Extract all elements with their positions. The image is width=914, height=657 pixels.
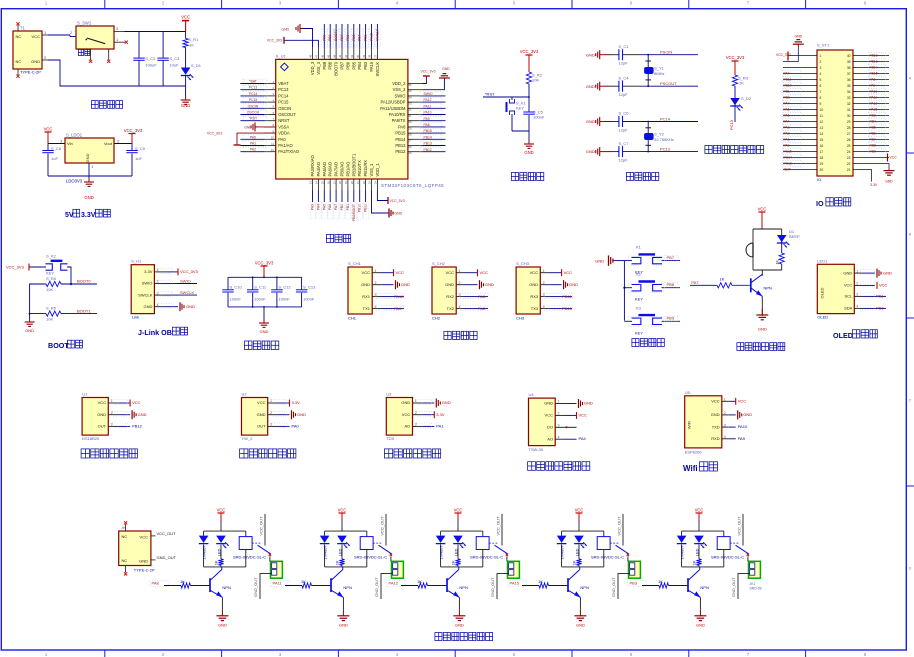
wire T1 VCC to switch xyxy=(48,35,76,37)
svg-text:TSW-30: TSW-30 xyxy=(529,447,544,452)
svg-text:21: 21 xyxy=(847,168,851,172)
svg-text:PA3: PA3 xyxy=(478,294,486,299)
svg-text:YW_2: YW_2 xyxy=(242,436,254,441)
net label driver input xyxy=(628,580,660,586)
svg-text:SWIO: SWIO xyxy=(142,281,153,286)
power flag VCC relay xyxy=(338,507,347,531)
svg-text:GND: GND xyxy=(281,28,289,32)
diode 1N4007 flyback xyxy=(320,536,330,560)
svg-text:GND: GND xyxy=(442,67,450,71)
svg-text:K3: K3 xyxy=(636,305,642,310)
svg-text:PA6: PA6 xyxy=(328,204,332,210)
svg-text:VCC_3V3: VCC_3V3 xyxy=(124,128,143,133)
svg-text:6: 6 xyxy=(820,84,822,88)
svg-text:1K: 1K xyxy=(739,81,744,86)
power flag VCC_3V3 at MCU VDD_2 xyxy=(420,70,435,84)
net label BOOT1 xyxy=(77,308,91,313)
svg-text:GND: GND xyxy=(544,401,553,406)
svg-text:31: 31 xyxy=(408,114,412,118)
svg-text:GND: GND xyxy=(85,153,90,162)
svg-text:SCL: SCL xyxy=(845,294,854,299)
capacitor S_C13 100nF xyxy=(296,277,316,307)
svg-text:1K: 1K xyxy=(692,560,697,565)
svg-text:TYPE-C-2P: TYPE-C-2P xyxy=(20,70,41,75)
svg-text:100uF: 100uF xyxy=(145,63,157,68)
svg-text:SRD-05VDC-SL-C: SRD-05VDC-SL-C xyxy=(470,555,503,560)
svg-text:25: 25 xyxy=(408,151,412,155)
svg-text:PB6: PB6 xyxy=(345,61,350,69)
svg-text:SWIO: SWIO xyxy=(180,279,191,284)
svg-text:VCC: VCC xyxy=(579,413,588,418)
svg-text:PC14: PC14 xyxy=(249,92,258,96)
relay coil box SRD-05VDC-SL-C xyxy=(591,537,624,560)
svg-text:40: 40 xyxy=(847,54,851,58)
svg-text:PB0: PB0 xyxy=(876,306,884,311)
svg-text:SWCLK: SWCLK xyxy=(180,290,195,295)
svg-text:38: 38 xyxy=(847,66,851,70)
wire relay coil loop xyxy=(325,531,367,567)
svg-text:S_C3: S_C3 xyxy=(169,56,180,61)
svg-text:LDO3V3: LDO3V3 xyxy=(66,179,83,184)
wire relay emitter to gnd xyxy=(342,597,344,609)
svg-text:B: B xyxy=(909,233,912,237)
svg-text:PB7: PB7 xyxy=(870,138,876,142)
svg-text:3.3V: 3.3V xyxy=(144,269,153,274)
svg-text:NPN: NPN xyxy=(764,286,773,291)
svg-text:SRD-05VDC-SL-C: SRD-05VDC-SL-C xyxy=(233,555,266,560)
svg-text:47: 47 xyxy=(315,54,319,58)
svg-text:PA0: PA0 xyxy=(278,137,286,142)
svg-text:C: C xyxy=(909,399,912,403)
header right pin wires and nets xyxy=(853,52,889,163)
svg-text:PB10: PB10 xyxy=(358,204,362,212)
svg-text:1K: 1K xyxy=(572,560,577,565)
svg-text:PB2/BOOT: PB2/BOOT xyxy=(352,204,356,221)
svg-text:S_R1: S_R1 xyxy=(188,37,199,42)
svg-text:27: 27 xyxy=(408,139,412,143)
svg-text:35: 35 xyxy=(408,89,412,93)
svg-text:20: 20 xyxy=(820,168,824,172)
wire header pin21 3.3V xyxy=(853,170,878,188)
relay coil box SRD-05VDC-SL-C xyxy=(233,537,266,560)
svg-text:A: A xyxy=(909,77,912,81)
svg-text:PA10: PA10 xyxy=(424,111,432,115)
svg-text:GND: GND xyxy=(883,270,892,275)
svg-text:22: 22 xyxy=(847,162,851,166)
svg-text:16: 16 xyxy=(326,181,330,185)
ground GND power circuit xyxy=(181,86,191,108)
svg-text:VCC: VCC xyxy=(338,507,347,512)
svg-text:GND: GND xyxy=(529,282,538,287)
crystal S_Y1 8MHz xyxy=(645,55,665,86)
svg-text:2: 2 xyxy=(820,60,822,64)
svg-text:Vin: Vin xyxy=(67,141,73,146)
svg-text:24: 24 xyxy=(374,181,378,185)
svg-text:GND: GND xyxy=(84,195,93,200)
svg-text:U5: U5 xyxy=(685,390,691,395)
relay coil box SRD-05VDC-SL-C xyxy=(711,537,744,560)
svg-text:PA2: PA2 xyxy=(478,306,486,311)
svg-text:PC13: PC13 xyxy=(249,86,258,90)
svg-text:GND: GND xyxy=(586,119,595,124)
regulator S_LDO1 LDO3V3 xyxy=(60,133,120,184)
svg-text:PB8: PB8 xyxy=(328,61,333,69)
power flag VCC_3V3 filter xyxy=(255,260,274,277)
diode 1N4007 flyback xyxy=(677,536,687,560)
svg-text:GND: GND xyxy=(260,329,269,334)
svg-text:KEY: KEY xyxy=(516,106,524,111)
svg-text:RX2: RX2 xyxy=(446,294,455,299)
transistor NPN alarm xyxy=(751,274,772,296)
svg-text:TX1: TX1 xyxy=(363,306,371,311)
power flag VCC_3V3 indicator xyxy=(726,55,745,75)
svg-text:S_R5: S_R5 xyxy=(46,306,57,311)
power flag VCC relay xyxy=(217,507,226,531)
svg-text:KEY: KEY xyxy=(635,330,643,335)
svg-text:OUT: OUT xyxy=(98,424,107,429)
svg-text:SRD-05VDC-SL-C: SRD-05VDC-SL-C xyxy=(711,555,744,560)
svg-text:1K: 1K xyxy=(776,260,780,265)
svg-text:PB1: PB1 xyxy=(876,294,884,299)
crystal S_Y2 32.768KHz xyxy=(645,122,674,152)
svg-text:SWCLK: SWCLK xyxy=(375,62,380,77)
svg-text:VSS_3: VSS_3 xyxy=(316,61,321,74)
LED relay indicator xyxy=(216,536,229,559)
transistor NPN relay xyxy=(688,567,709,598)
label yewei jiance module xyxy=(240,449,296,458)
svg-text:PA12: PA12 xyxy=(389,580,399,585)
resistor S_R3 1K xyxy=(732,75,748,86)
svg-text:3.3V: 3.3V xyxy=(81,212,96,219)
svg-text:VCC_OUT: VCC_OUT xyxy=(496,516,501,536)
svg-text:VCC_OUT: VCC_OUT xyxy=(737,516,742,536)
svg-text:S_C10: S_C10 xyxy=(230,285,243,290)
label wendu jiance module xyxy=(81,449,137,458)
label shenguang baojing dianlu xyxy=(737,343,785,351)
svg-text:Vout: Vout xyxy=(104,141,113,146)
svg-text:SWIO: SWIO xyxy=(424,92,433,96)
svg-text:1: 1 xyxy=(558,400,560,404)
svg-text:BOOT1: BOOT1 xyxy=(77,308,91,313)
relay switch contact xyxy=(730,514,749,556)
svg-text:PA2/TX/AO: PA2/TX/AO xyxy=(278,149,299,154)
svg-text:VCC: VCC xyxy=(879,283,888,288)
svg-text:PB12: PB12 xyxy=(395,149,406,154)
module U5 ESP8266 wifi xyxy=(685,390,753,455)
ground relay xyxy=(337,610,349,628)
svg-text:WIFI: WIFI xyxy=(687,421,692,429)
svg-text:RXD: RXD xyxy=(711,436,720,441)
pushbutton S_K2 KEY boot xyxy=(46,254,68,276)
svg-text:S_C8: S_C8 xyxy=(51,146,62,151)
svg-text:GND: GND xyxy=(339,622,348,627)
svg-text:1: 1 xyxy=(375,269,377,273)
svg-text:STM32F103C8T6_LQFP48: STM32F103C8T6_LQFP48 xyxy=(381,183,444,188)
svg-text:VCC_3V3: VCC_3V3 xyxy=(255,260,274,265)
svg-text:PB6: PB6 xyxy=(346,34,350,41)
ground at MCU VSS_1 xyxy=(372,190,403,218)
wire filter bottom rail xyxy=(228,306,302,308)
svg-text:5: 5 xyxy=(820,78,822,82)
svg-text:VCC: VCC xyxy=(480,270,489,275)
net label VCC_3V3 at VDDA xyxy=(207,131,222,135)
power VCC_3V3 at MCU VDD_1 xyxy=(377,190,404,204)
svg-text:28: 28 xyxy=(847,126,851,130)
svg-text:SWCLK: SWCLK xyxy=(138,292,153,297)
svg-text:1N4007: 1N4007 xyxy=(680,545,685,560)
svg-text:GND_OUT: GND_OUT xyxy=(611,577,616,597)
svg-text:VCC_3V3: VCC_3V3 xyxy=(207,131,222,135)
svg-text:15: 15 xyxy=(820,138,824,142)
svg-text:VCC_3V3: VCC_3V3 xyxy=(267,39,282,43)
svg-text:15: 15 xyxy=(321,181,325,185)
svg-text:OUT: OUT xyxy=(257,424,266,429)
svg-text:GND: GND xyxy=(576,622,585,627)
LED relay indicator xyxy=(337,536,350,559)
svg-text:GND: GND xyxy=(138,412,147,417)
svg-text:3.3V: 3.3V xyxy=(436,412,445,417)
svg-text:S_C13: S_C13 xyxy=(303,285,316,290)
green terminal block xyxy=(738,557,760,600)
svg-text:NC: NC xyxy=(16,34,22,39)
svg-text:TX3: TX3 xyxy=(531,306,539,311)
svg-text:VCC: VCC xyxy=(44,127,53,132)
svg-text:30: 30 xyxy=(847,114,851,118)
net label VCC_OUT power xyxy=(157,531,177,536)
svg-text:3: 3 xyxy=(820,66,822,70)
svg-text:33: 33 xyxy=(847,96,851,100)
wire relay coil loop xyxy=(441,531,483,567)
svg-text:VSS_2: VSS_2 xyxy=(393,87,406,92)
MCU right pins and net labels xyxy=(408,83,446,155)
svg-text:S_C12: S_C12 xyxy=(278,285,291,290)
svg-text:PA12/USBDP: PA12/USBDP xyxy=(380,100,405,105)
svg-text:2: 2 xyxy=(724,411,726,415)
svg-text:GND_OUT: GND_OUT xyxy=(490,577,495,597)
svg-text:13: 13 xyxy=(820,126,824,130)
svg-text:29: 29 xyxy=(847,120,851,124)
svg-text:PB2/BOOT1: PB2/BOOT1 xyxy=(351,153,356,176)
svg-text:8: 8 xyxy=(820,96,822,100)
header S_H1 JLink body xyxy=(131,259,154,320)
svg-text:DS18B20: DS18B20 xyxy=(82,436,100,441)
svg-text:4: 4 xyxy=(724,435,726,439)
svg-text:PC13: PC13 xyxy=(278,87,289,92)
label OLED xianshiping xyxy=(833,330,877,340)
svg-text:Wifi: Wifi xyxy=(683,464,698,473)
capacitor S_C12 100nF xyxy=(271,277,291,307)
svg-text:VCC: VCC xyxy=(140,535,149,540)
svg-text:1K: 1K xyxy=(301,579,306,584)
svg-text:ESP8266: ESP8266 xyxy=(685,449,703,454)
svg-text:PA7: PA7 xyxy=(691,280,699,285)
resistor 1K relay base xyxy=(538,579,568,588)
svg-text:PC13: PC13 xyxy=(660,146,671,151)
net label driver input xyxy=(508,580,540,586)
pushbutton K1 xyxy=(624,245,680,275)
svg-text:1K: 1K xyxy=(451,560,456,565)
svg-text:SRD-09: SRD-09 xyxy=(750,586,762,590)
svg-text:S_K2: S_K2 xyxy=(46,254,57,259)
svg-text:PC14: PC14 xyxy=(278,93,289,98)
label fuwei dianlu reset xyxy=(511,172,543,180)
svg-text:31: 31 xyxy=(847,108,851,112)
svg-text:3: 3 xyxy=(856,293,858,297)
green terminal block xyxy=(260,557,282,600)
svg-text:BEEP: BEEP xyxy=(789,234,800,239)
svg-text:VCC: VCC xyxy=(530,270,539,275)
svg-text:14: 14 xyxy=(820,132,824,136)
connector T1 TYPE-C-2P xyxy=(13,22,48,78)
header S_ST1 IO expansion body xyxy=(817,43,853,183)
svg-text:13: 13 xyxy=(309,181,313,185)
svg-text:GND: GND xyxy=(144,304,153,309)
label anjian dianlu keys xyxy=(632,338,664,346)
svg-text:GND: GND xyxy=(743,412,752,417)
svg-text:PB12: PB12 xyxy=(424,148,432,152)
svg-text:10: 10 xyxy=(271,136,275,140)
connector S_CH1 serial xyxy=(348,261,410,321)
svg-text:K2: K2 xyxy=(636,272,642,277)
svg-text:VCC: VCC xyxy=(98,400,107,405)
svg-text:OLED: OLED xyxy=(817,315,828,320)
svg-text:PB3: PB3 xyxy=(870,114,876,118)
svg-text:25: 25 xyxy=(847,144,851,148)
svg-text:VSSA: VSSA xyxy=(278,124,289,129)
svg-text:VDD_1: VDD_1 xyxy=(375,163,380,177)
net label driver input xyxy=(271,580,303,586)
ground at MCU VSS_2 xyxy=(422,67,450,90)
svg-text:J-Link OB: J-Link OB xyxy=(138,328,172,337)
net label GND_OUT relay xyxy=(374,577,379,597)
label shuizhi jiance module xyxy=(384,449,440,458)
svg-text:GND: GND xyxy=(524,150,533,155)
svg-text:GND: GND xyxy=(218,622,227,627)
svg-text:VCC: VCC xyxy=(257,400,266,405)
svg-text:PA15: PA15 xyxy=(510,580,520,585)
svg-text:SRD-05VDC-SL-C: SRD-05VDC-SL-C xyxy=(591,555,624,560)
svg-text:PB9: PB9 xyxy=(322,61,327,69)
svg-text:28: 28 xyxy=(408,133,412,137)
resistor 1K relay led xyxy=(335,559,345,567)
svg-text:*BAT: *BAT xyxy=(249,80,257,84)
svg-text:32: 32 xyxy=(408,108,412,112)
pushbutton K3 xyxy=(624,305,680,335)
svg-text:7: 7 xyxy=(820,90,822,94)
label IO tuozhankou xyxy=(816,198,851,208)
wire key trunk xyxy=(623,261,625,321)
svg-text:PC15: PC15 xyxy=(278,100,289,105)
svg-text:3: 3 xyxy=(558,424,560,428)
svg-text:1: 1 xyxy=(856,269,858,273)
svg-text:PB13: PB13 xyxy=(395,143,406,148)
resistor 1K relay led xyxy=(214,559,224,567)
svg-text:AO: AO xyxy=(405,424,411,429)
relay switch contact xyxy=(373,514,392,556)
svg-text:PC13: PC13 xyxy=(729,119,734,130)
svg-text:S_D1: S_D1 xyxy=(191,63,202,68)
svg-text:S_H1: S_H1 xyxy=(131,259,142,264)
svg-text:PB13: PB13 xyxy=(424,142,432,146)
ground alarm xyxy=(756,296,768,331)
svg-text:22: 22 xyxy=(362,181,366,185)
svg-text:CH3: CH3 xyxy=(516,316,525,321)
svg-text:11: 11 xyxy=(271,142,274,146)
svg-text:D: D xyxy=(909,567,912,571)
svg-text:GND: GND xyxy=(139,559,148,564)
svg-text:10K: 10K xyxy=(532,78,539,83)
svg-text:PB3: PB3 xyxy=(363,61,368,69)
svg-text:RX1: RX1 xyxy=(362,294,371,299)
net label SWCLK xyxy=(178,290,197,295)
svg-text:GND: GND xyxy=(31,59,40,64)
svg-text:VCC: VCC xyxy=(181,15,190,20)
svg-text:GND: GND xyxy=(485,282,494,287)
power flag VCC alarm xyxy=(758,207,767,230)
svg-text:VSS_1: VSS_1 xyxy=(369,163,374,176)
svg-text:PA11: PA11 xyxy=(424,104,432,108)
svg-text:1N4007: 1N4007 xyxy=(560,545,565,560)
capacitor S_C3 10uF xyxy=(157,32,180,87)
label zhuxinpian main chip xyxy=(326,234,350,242)
ground boot xyxy=(25,318,35,333)
svg-text:BOOT0: BOOT0 xyxy=(334,29,338,41)
svg-text:VCC_3V3: VCC_3V3 xyxy=(420,70,435,74)
svg-text:PA11/USBDM: PA11/USBDM xyxy=(380,106,406,111)
svg-text:26: 26 xyxy=(408,145,412,149)
transistor NPN relay xyxy=(210,567,231,598)
svg-text:S_SW1: S_SW1 xyxy=(77,21,92,26)
svg-text:BOOT0: BOOT0 xyxy=(334,61,339,76)
svg-text:PA10/RX: PA10/RX xyxy=(389,112,406,117)
buzzer xyxy=(746,243,753,270)
svg-text:1K: 1K xyxy=(417,579,422,584)
LED S_D2 xyxy=(729,86,752,130)
svg-text:BOOT0: BOOT0 xyxy=(77,279,91,284)
svg-text:40: 40 xyxy=(356,54,360,58)
net label GND_OUT relay xyxy=(490,577,495,597)
svg-text:2: 2 xyxy=(375,281,377,285)
svg-text:SWCLK: SWCLK xyxy=(375,28,379,41)
capacitor S_C7 12pF row PC13 xyxy=(586,141,698,163)
resistor 1K relay base xyxy=(417,579,447,588)
connector S_CH3 serial xyxy=(516,261,578,321)
svg-text:1K: 1K xyxy=(214,560,219,565)
svg-text:VCC: VCC xyxy=(695,507,704,512)
capacitor S_C1 12pF row PSCIN xyxy=(586,44,698,66)
ground header pins xyxy=(884,164,895,184)
svg-text:GND_OUT: GND_OUT xyxy=(253,577,258,597)
ground OLED xyxy=(877,269,892,278)
svg-text:18: 18 xyxy=(820,156,824,160)
svg-text:PA11: PA11 xyxy=(870,96,878,100)
svg-text:K1: K1 xyxy=(636,245,642,250)
svg-text:PB5: PB5 xyxy=(870,126,876,130)
svg-text:NPN: NPN xyxy=(580,585,589,590)
svg-text:S_U1: S_U1 xyxy=(276,53,287,58)
svg-text:IO: IO xyxy=(817,178,821,182)
net label VCC_OUT relay xyxy=(380,516,385,536)
svg-text:24: 24 xyxy=(847,150,851,154)
svg-text:PA8: PA8 xyxy=(870,78,876,82)
power flag VCC_3V3 jlink xyxy=(178,268,199,275)
svg-text:2: 2 xyxy=(459,281,461,285)
svg-text:PA11: PA11 xyxy=(273,580,283,585)
svg-text:1K: 1K xyxy=(658,579,663,584)
svg-text:PA4/AO: PA4/AO xyxy=(316,162,321,177)
svg-text:S_Y1: S_Y1 xyxy=(654,65,665,70)
svg-text:23: 23 xyxy=(368,181,372,185)
